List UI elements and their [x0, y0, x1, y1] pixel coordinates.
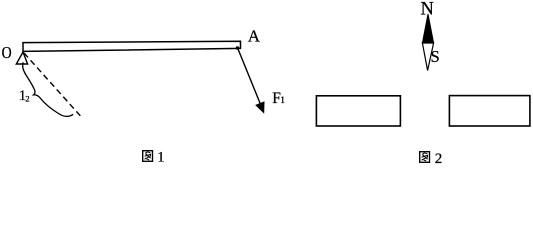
brace for moment arm l2 — [23, 62, 74, 116]
svg-text:1: 1 — [280, 95, 285, 105]
left bar magnet — [316, 96, 400, 126]
svg-text:A: A — [248, 27, 261, 46]
svg-text:S: S — [431, 47, 440, 66]
svg-text:2: 2 — [25, 94, 29, 104]
svg-text:1: 1 — [157, 149, 164, 164]
fulcrum triangle at O — [16, 52, 27, 64]
svg-text:O: O — [2, 43, 12, 62]
compass needle north half (filled) — [422, 14, 433, 43]
right bar magnet — [449, 96, 530, 126]
caption fig-1: hand-drawn CJK glyph tu (picture) — [143, 151, 153, 162]
caption fig-2: hand-drawn CJK glyph tu (picture) — [420, 152, 430, 163]
compass needle south half (outline) — [422, 43, 433, 71]
svg-text:2: 2 — [435, 151, 443, 164]
force arrow F1 head — [256, 102, 264, 113]
point A dot on bar end — [236, 46, 240, 50]
lever bar OA — [23, 41, 241, 51]
force arrow F1 shaft — [238, 49, 261, 105]
dashed line of action through O — [24, 53, 81, 116]
